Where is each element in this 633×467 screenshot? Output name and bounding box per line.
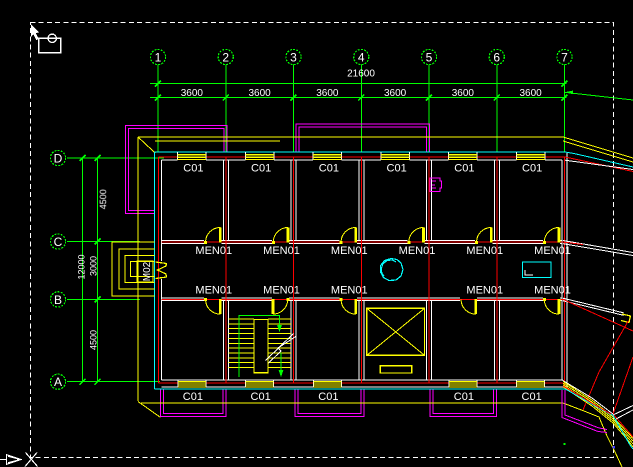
svg-text:3600: 3600: [316, 88, 339, 99]
corridor bottom wall: [162, 298, 564, 301]
inner wall white top: [162, 152, 563, 160]
wing dim line green: [565, 92, 633, 100]
svg-text:MEN01: MEN01: [466, 245, 503, 257]
wing red diagonal 1: [583, 321, 629, 411]
svg-text:3600: 3600: [452, 88, 475, 99]
wing bundle yellow: [563, 381, 633, 438]
svg-text:C: C: [54, 235, 63, 249]
labels C01 bottom: [183, 391, 542, 403]
axis arrow: [0, 459, 7, 461]
svg-text:C01: C01: [183, 163, 203, 175]
outer wall red top: [159, 156, 566, 158]
top dimension lines: [150, 81, 568, 101]
svg-text:MEN01: MEN01: [466, 285, 503, 297]
grid bubbles 1-7: [150, 49, 572, 64]
staircase treads: [229, 319, 292, 373]
windows top: [178, 154, 545, 159]
windows bottom: [178, 381, 545, 387]
wing slab yellow: [563, 403, 622, 467]
entrance steps yellow: [112, 242, 155, 296]
svg-text:MEN01: MEN01: [399, 245, 436, 257]
camera icon: [39, 38, 61, 52]
outer wall cyan top: [155, 151, 566, 153]
svg-text:3000: 3000: [89, 256, 99, 276]
svg-text:C01: C01: [387, 163, 407, 175]
svg-text:MEN01: MEN01: [195, 285, 232, 297]
wing top red: [565, 157, 633, 172]
svg-text:MEN01: MEN01: [534, 245, 571, 257]
outer wall red bottom: [159, 382, 564, 384]
svg-text:C01: C01: [454, 391, 474, 403]
outer wall cyan bottom: [155, 388, 566, 390]
svg-text:C01: C01: [251, 391, 271, 403]
cyan table rect: [523, 262, 552, 278]
svg-text:MEN01: MEN01: [263, 285, 300, 297]
svg-text:3600: 3600: [181, 88, 204, 99]
inner wall white bottom: [162, 380, 564, 387]
svg-text:2: 2: [222, 51, 229, 65]
wing top yellow: [563, 137, 633, 158]
svg-text:C01: C01: [319, 163, 339, 175]
svg-text:MEN01: MEN01: [534, 285, 571, 297]
balcony bottom 2 magenta: [295, 390, 364, 417]
wing balcony magenta: [565, 390, 607, 430]
internal walls columns 2-6: [223, 157, 499, 383]
wing corridor bottom: [563, 298, 624, 313]
row bubbles D C B A: [50, 150, 65, 389]
svg-text:C01: C01: [522, 163, 542, 175]
svg-text:C01: C01: [454, 163, 474, 175]
svg-text:MEN01: MEN01: [263, 245, 300, 257]
magenta marker: [430, 178, 442, 192]
svg-text:B: B: [54, 293, 62, 307]
grid vertical lines: [158, 65, 565, 153]
svg-text:4: 4: [358, 51, 365, 65]
labels MEN01 lower: [195, 285, 570, 297]
svg-text:A: A: [54, 375, 62, 389]
dim texts 3600: [181, 88, 542, 99]
outer wall cyan left: [154, 152, 156, 389]
elevator counterweight: [380, 366, 411, 373]
wing bundle white: [562, 380, 613, 414]
svg-text:MEN01: MEN01: [331, 245, 368, 257]
svg-text:MEN01: MEN01: [331, 285, 368, 297]
corridor top wall: [162, 241, 564, 244]
svg-text:3: 3: [290, 51, 297, 65]
svg-text:MEN01: MEN01: [195, 245, 232, 257]
green dot: [564, 443, 566, 445]
balcony outline top-middle magenta: [296, 124, 430, 152]
axis X label: [26, 453, 38, 467]
balcony outline top-left magenta: [126, 125, 227, 213]
elevator shaft: [367, 308, 425, 355]
svg-text:21600: 21600: [347, 69, 375, 80]
svg-text:4500: 4500: [89, 330, 99, 350]
svg-text:5: 5: [426, 51, 433, 65]
row grid lines: [67, 158, 164, 382]
svg-text:1: 1: [155, 51, 162, 65]
svg-text:3600: 3600: [520, 88, 543, 99]
stair break line white: [266, 334, 294, 361]
svg-text:3600: 3600: [384, 88, 407, 99]
wall right side: [561, 160, 563, 380]
wing top white: [565, 160, 633, 169]
balcony bottom 1 magenta: [160, 390, 226, 417]
wing corridor top white: [563, 241, 633, 253]
doors upper row: [204, 227, 559, 244]
entrance door M02 symbol: [156, 262, 167, 279]
wing bundle cyan: [565, 389, 633, 449]
balcony bottom 3 magenta: [430, 390, 497, 417]
svg-text:D: D: [54, 152, 63, 166]
svg-text:C01: C01: [251, 163, 271, 175]
outer wall red left: [158, 157, 160, 383]
labels MEN01 upper: [195, 245, 570, 257]
stair arrow up green: [239, 316, 280, 378]
blue dot: [613, 446, 616, 449]
svg-text:C01: C01: [183, 391, 203, 403]
svg-text:C01: C01: [522, 391, 542, 403]
svg-text:12000: 12000: [77, 254, 87, 279]
wing red diagonal 2: [613, 357, 633, 437]
svg-text:4500: 4500: [98, 189, 108, 209]
wing corridor door yellow: [621, 314, 631, 323]
cyan revision blob: [381, 259, 404, 281]
svg-text:3600: 3600: [249, 88, 272, 99]
svg-text:7: 7: [561, 51, 568, 65]
mouse cursor arrow: [31, 24, 40, 40]
inner wall white left: [161, 160, 163, 261]
doors lower row: [204, 298, 559, 314]
svg-text:M02: M02: [142, 261, 153, 281]
wing top cyan: [565, 152, 633, 167]
bottom slab yellow: [141, 402, 563, 404]
left dimension lines: [80, 155, 101, 385]
svg-text:C01: C01: [318, 391, 338, 403]
svg-text:6: 6: [493, 51, 500, 65]
wing bundle red: [563, 386, 611, 414]
top slab yellow lines: [138, 136, 563, 138]
labels C01 top: [183, 163, 542, 175]
